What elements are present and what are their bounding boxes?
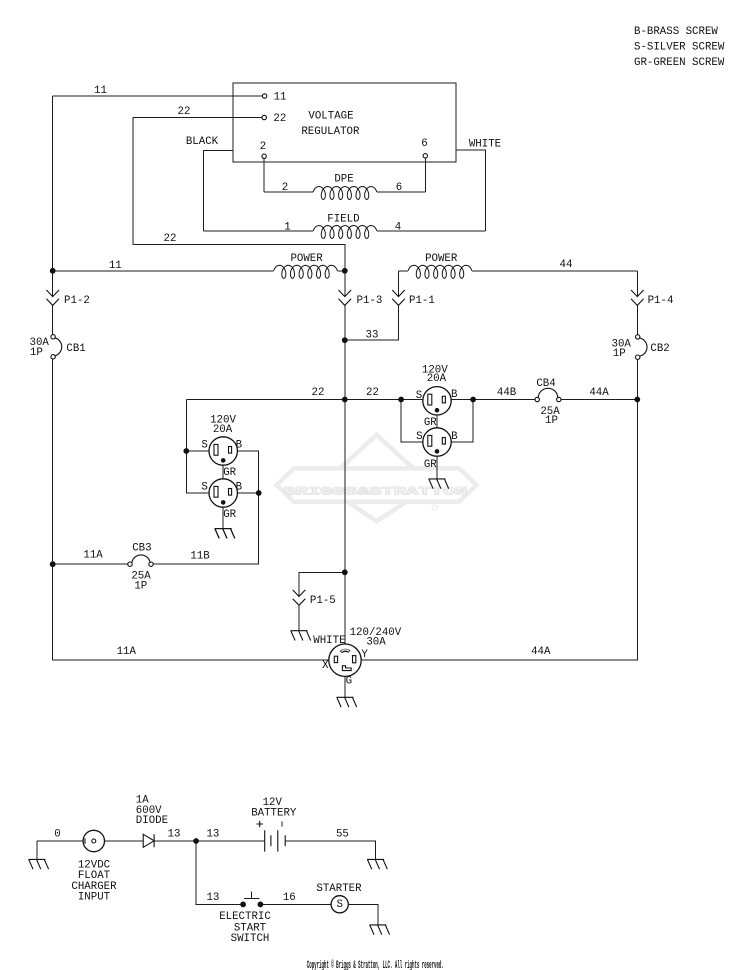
svg-text:Copyright © Briggs & Stratton,: Copyright © Briggs & Stratton, LLC. All … bbox=[307, 960, 444, 970]
svg-text:FIELD: FIELD bbox=[327, 213, 359, 225]
svg-text:GR: GR bbox=[424, 459, 437, 471]
svg-text:CB2: CB2 bbox=[650, 343, 669, 355]
svg-text:1P: 1P bbox=[545, 415, 558, 427]
svg-text:B: B bbox=[236, 439, 243, 451]
svg-text:P1-1: P1-1 bbox=[409, 295, 435, 307]
svg-text:11A: 11A bbox=[117, 646, 137, 658]
svg-text:16: 16 bbox=[283, 892, 296, 904]
svg-text:B: B bbox=[451, 431, 458, 443]
svg-text:CB4: CB4 bbox=[536, 378, 555, 390]
svg-text:GR: GR bbox=[424, 417, 437, 429]
svg-text:CB1: CB1 bbox=[66, 343, 85, 355]
svg-text:S: S bbox=[416, 390, 422, 402]
svg-text:22: 22 bbox=[164, 233, 177, 245]
svg-text:B: B bbox=[451, 389, 458, 401]
svg-text:2: 2 bbox=[260, 141, 266, 153]
svg-text:20A: 20A bbox=[427, 373, 447, 385]
svg-text:ELECTRIC: ELECTRIC bbox=[219, 911, 271, 923]
svg-text:11: 11 bbox=[274, 92, 287, 104]
svg-text:B: B bbox=[236, 481, 243, 493]
svg-text:4: 4 bbox=[395, 221, 401, 233]
svg-text:Y: Y bbox=[361, 649, 368, 661]
svg-text:55: 55 bbox=[336, 829, 349, 841]
svg-text:VOLTAGE: VOLTAGE bbox=[308, 110, 353, 122]
svg-text:GR: GR bbox=[223, 509, 236, 521]
svg-text:GR-GREEN SCREW: GR-GREEN SCREW bbox=[634, 57, 725, 69]
svg-text:1P: 1P bbox=[134, 581, 147, 593]
svg-text:6: 6 bbox=[421, 138, 427, 150]
svg-text:11: 11 bbox=[94, 85, 107, 97]
svg-text:44A: 44A bbox=[531, 646, 551, 658]
svg-text:1: 1 bbox=[284, 221, 290, 233]
svg-text:BLACK: BLACK bbox=[186, 136, 219, 148]
svg-text:G: G bbox=[346, 675, 352, 687]
svg-text:DIODE: DIODE bbox=[136, 815, 168, 827]
svg-text:20A: 20A bbox=[213, 424, 233, 436]
svg-text:BRIGGS&STRATTON: BRIGGS&STRATTON bbox=[284, 486, 468, 498]
svg-text:P1-4: P1-4 bbox=[648, 295, 674, 307]
svg-text:X: X bbox=[322, 660, 329, 672]
svg-text:S: S bbox=[201, 439, 207, 451]
svg-text:P1-5: P1-5 bbox=[310, 595, 336, 607]
svg-text:33: 33 bbox=[366, 329, 379, 341]
svg-text:30A: 30A bbox=[366, 636, 386, 648]
svg-text:DPE: DPE bbox=[334, 174, 353, 186]
svg-text:S: S bbox=[416, 431, 422, 443]
svg-text:44A: 44A bbox=[589, 387, 609, 399]
svg-text:22: 22 bbox=[178, 106, 191, 118]
svg-text:44B: 44B bbox=[497, 387, 517, 399]
svg-text:13: 13 bbox=[206, 892, 219, 904]
svg-text:GR: GR bbox=[223, 467, 236, 479]
svg-text:44: 44 bbox=[560, 259, 573, 271]
svg-text:13: 13 bbox=[206, 829, 219, 841]
svg-text:INPUT: INPUT bbox=[78, 891, 111, 903]
svg-text:BATTERY: BATTERY bbox=[251, 807, 297, 819]
svg-text:P1-3: P1-3 bbox=[357, 295, 383, 307]
svg-text:S: S bbox=[336, 899, 342, 911]
svg-text:B-BRASS SCREW: B-BRASS SCREW bbox=[634, 26, 718, 38]
svg-text:1P: 1P bbox=[613, 348, 626, 360]
svg-text:22: 22 bbox=[312, 387, 325, 399]
svg-text:22: 22 bbox=[273, 113, 286, 125]
svg-text:SWITCH: SWITCH bbox=[231, 933, 270, 945]
svg-text:0: 0 bbox=[54, 829, 60, 841]
svg-text:2: 2 bbox=[282, 182, 288, 194]
svg-text:11B: 11B bbox=[190, 551, 210, 563]
svg-text:WHITE: WHITE bbox=[469, 138, 501, 150]
svg-text:S-SILVER SCREW: S-SILVER SCREW bbox=[634, 42, 725, 54]
svg-text:11: 11 bbox=[109, 260, 122, 272]
svg-text:6: 6 bbox=[396, 182, 402, 194]
svg-text:REGULATOR: REGULATOR bbox=[301, 126, 360, 138]
svg-text:CB3: CB3 bbox=[132, 543, 151, 555]
svg-text:WHITE: WHITE bbox=[313, 635, 345, 647]
svg-text:STARTER: STARTER bbox=[316, 883, 362, 895]
svg-text:22: 22 bbox=[366, 387, 379, 399]
svg-text:POWER: POWER bbox=[290, 253, 323, 265]
svg-text:11A: 11A bbox=[83, 550, 103, 562]
svg-text:P1-2: P1-2 bbox=[64, 295, 90, 307]
svg-text:13: 13 bbox=[168, 829, 181, 841]
svg-text:POWER: POWER bbox=[425, 253, 458, 265]
svg-text:1P: 1P bbox=[30, 347, 43, 359]
svg-text:S: S bbox=[201, 481, 207, 493]
